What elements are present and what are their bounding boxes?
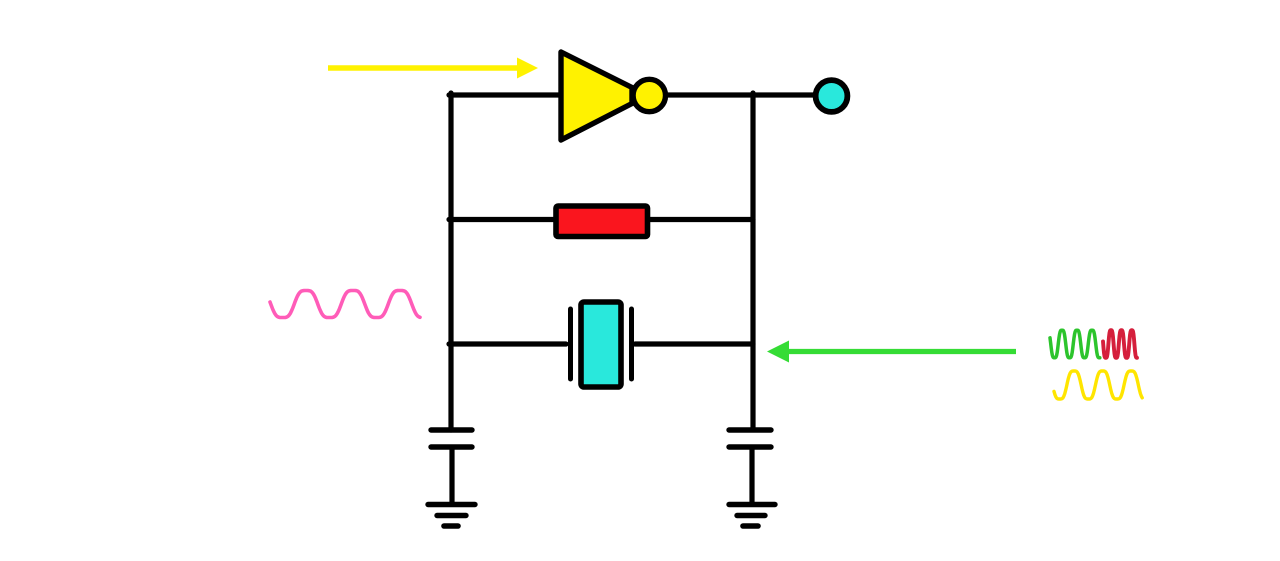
wire: left vertical rail — [448, 93, 453, 430]
wire: right vertical rail — [750, 93, 755, 428]
capacitor C1 top plate — [431, 427, 472, 432]
wire: inverter input (top row) — [449, 92, 562, 97]
annotation sine (red, harmonic) — [1103, 330, 1137, 358]
inversion bubble — [633, 79, 665, 111]
resistor R1 — [556, 206, 648, 237]
annotation sine (pink, feedback) — [270, 291, 420, 318]
capacitor C1 bottom plate — [431, 444, 472, 449]
crystal X1 right electrode — [629, 309, 634, 379]
crystal X1 left electrode — [568, 309, 573, 379]
wire: C1 to ground — [449, 448, 454, 503]
annotation sine (yellow, filtered) — [1054, 371, 1142, 399]
op-amp U1 inverter triangle — [561, 52, 632, 140]
annotation arrow (green, output tap) — [767, 341, 1016, 363]
wire: C2 to ground — [749, 448, 754, 503]
ground (left) — [428, 505, 475, 527]
crystal X1 body — [581, 302, 621, 387]
ground (right) — [729, 505, 775, 527]
wire: crystal row left — [449, 341, 566, 346]
capacitor C2 bottom plate — [729, 444, 771, 449]
wire: crystal row right — [635, 341, 753, 346]
annotation sine (green, fundamental) — [1050, 330, 1100, 358]
node OUT terminal — [816, 80, 848, 112]
wire: inverter output to node — [666, 92, 815, 97]
wire: resistor row right — [648, 217, 753, 222]
capacitor C2 top plate — [729, 427, 771, 432]
annotation arrow (yellow, input) — [328, 58, 538, 79]
wire: resistor row left — [449, 217, 556, 222]
